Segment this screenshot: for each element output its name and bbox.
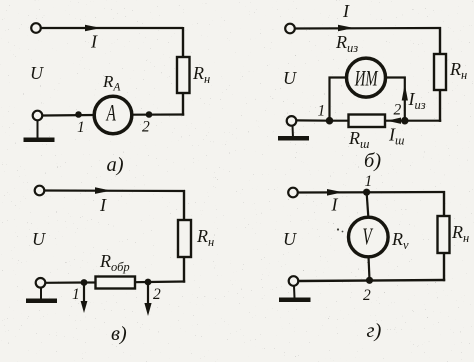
wire voltmeter top stub circuit g [367, 192, 369, 216]
wire bottom horizontal circuit a [43, 114, 95, 117]
terminal (input +) circuit g [288, 188, 298, 198]
terminal (input -) circuit b [287, 116, 297, 126]
svg-text:а): а) [107, 154, 124, 176]
label RН circuit a [192, 63, 210, 86]
wire bottom horizontal circuit g [299, 280, 446, 281]
label node 1 circuit b [318, 103, 326, 120]
terminal (input -) circuit g [289, 276, 299, 286]
ammeter A (RA) circuit a [94, 96, 132, 134]
wire Rобр to node2 circuit v [134, 281, 148, 283]
terminal (input -) circuit v [36, 278, 46, 288]
label Rиз circuit b [335, 32, 358, 55]
wire voltmeter bottom stub circuit g [369, 256, 370, 280]
label RV circuit g [391, 229, 409, 252]
wire right vertical top circuit a [182, 27, 184, 58]
wire right vertical top circuit v [183, 190, 185, 221]
current arrow Iш circuit b [387, 118, 401, 124]
wire top horizontal circuit g [298, 191, 445, 194]
wire top horizontal circuit b [295, 27, 441, 30]
resistor RН (load) circuit v [178, 220, 191, 257]
speck artifact near voltmeter [337, 228, 344, 232]
current arrow I circuit a [85, 25, 101, 32]
label node 2 circuit b [394, 102, 402, 119]
wire right vertical top circuit g [443, 191, 445, 217]
resistor RН (load) circuit g [438, 216, 450, 253]
label node 1 circuit v [72, 286, 80, 303]
node 2 circuit b [401, 117, 409, 125]
label I circuit a [90, 32, 98, 52]
ground circuit a [24, 121, 55, 143]
wire node1 to shunt circuit b [330, 120, 351, 122]
label Rобр circuit v [99, 251, 130, 274]
label I circuit g [331, 195, 339, 215]
label g) caption [367, 320, 382, 342]
resistor RН (load) circuit a [177, 57, 190, 93]
wire node1 to Rобр circuit v [84, 281, 97, 283]
svg-text:2: 2 [153, 286, 161, 303]
shunt resistor Rш circuit b [349, 115, 386, 128]
wire shunt to node2 circuit b [384, 120, 406, 122]
svg-text:I: I [90, 32, 98, 52]
label b) caption [364, 150, 381, 172]
label a) caption [107, 154, 124, 176]
svg-text:A: A [105, 102, 116, 127]
resistor Rобр circuit v [96, 277, 136, 289]
label U circuit v [32, 229, 46, 249]
svg-text:в): в) [111, 323, 127, 345]
svg-text:1: 1 [365, 173, 373, 190]
svg-text:I: I [99, 195, 107, 215]
current arrow I circuit v [95, 187, 111, 194]
label Rш circuit b [348, 128, 369, 151]
svg-text:U: U [283, 68, 297, 88]
wire right vertical bottom circuit g [443, 253, 445, 281]
voltmeter V (RV) circuit g [349, 217, 389, 257]
svg-text:2: 2 [142, 119, 150, 136]
ground circuit b [278, 126, 309, 141]
svg-text:1: 1 [72, 286, 80, 303]
terminal (input +) circuit a [31, 23, 41, 33]
label RН circuit g [451, 222, 469, 245]
node 2 circuit a [146, 111, 153, 118]
node 1 circuit a [75, 111, 82, 118]
svg-text:I: I [331, 195, 339, 215]
svg-text:1: 1 [77, 119, 85, 136]
node 1 circuit g [363, 189, 370, 196]
label U circuit b [283, 68, 297, 88]
label node 2 circuit a [142, 119, 150, 136]
wire right vertical bottom circuit v [148, 257, 185, 283]
wire right vertical top circuit b [439, 27, 441, 55]
node 1 circuit v [81, 279, 88, 286]
wire bottom horizontal circuit b [297, 119, 330, 121]
svg-text:2: 2 [363, 287, 371, 304]
meter movement ИМ circuit b [347, 58, 386, 97]
terminal (input +) circuit v [35, 186, 45, 196]
label node 2 circuit g [363, 287, 371, 304]
label node 1 circuit a [77, 119, 85, 136]
label U circuit g [283, 229, 297, 249]
label Iиз circuit b [408, 89, 426, 112]
arrow down from node 2 circuit v [144, 284, 151, 316]
svg-text:1: 1 [318, 103, 326, 120]
label RН circuit b [449, 59, 467, 82]
label I circuit v [99, 195, 107, 215]
wire top horizontal circuit v [45, 189, 186, 192]
svg-text:б): б) [364, 150, 381, 172]
svg-text:U: U [283, 229, 297, 249]
resistor RН (load) circuit b [434, 54, 446, 90]
terminal (input +) circuit b [285, 24, 295, 34]
label v) caption [111, 323, 127, 345]
current arrow I circuit g [327, 189, 343, 196]
label RA circuit a [102, 72, 121, 94]
wire bottom horizontal circuit v [46, 281, 85, 283]
svg-text:ИМ: ИМ [354, 66, 379, 91]
svg-text:г): г) [367, 320, 382, 342]
wire top horizontal circuit a [41, 27, 183, 29]
node 2 circuit v [145, 279, 152, 286]
ground circuit v [26, 288, 57, 303]
svg-text:U: U [32, 229, 46, 249]
label RН circuit v [196, 226, 214, 249]
terminal (input -) circuit a [33, 111, 43, 121]
svg-text:2: 2 [394, 102, 402, 119]
svg-text:U: U [30, 63, 44, 83]
current arrow I circuit b [338, 25, 354, 32]
wire right vertical bottom circuit a [132, 93, 184, 116]
label U circuit a [30, 63, 44, 83]
wire right stub of ИМ circuit b [386, 78, 405, 121]
label node 1 circuit g [365, 173, 373, 190]
label Iш circuit b [388, 125, 404, 148]
arrow down from node 1 circuit v [81, 285, 88, 314]
wire left stub of ИМ circuit b [330, 78, 346, 121]
wire right vertical bottom circuit b [405, 90, 441, 122]
current arrow Iиз circuit b [402, 84, 408, 101]
ground circuit g [279, 286, 311, 302]
label I circuit b [342, 1, 350, 21]
label node 2 circuit v [153, 286, 161, 303]
svg-text:I: I [342, 1, 350, 21]
node 2 circuit g [366, 277, 373, 284]
node 1 circuit b [326, 117, 334, 125]
